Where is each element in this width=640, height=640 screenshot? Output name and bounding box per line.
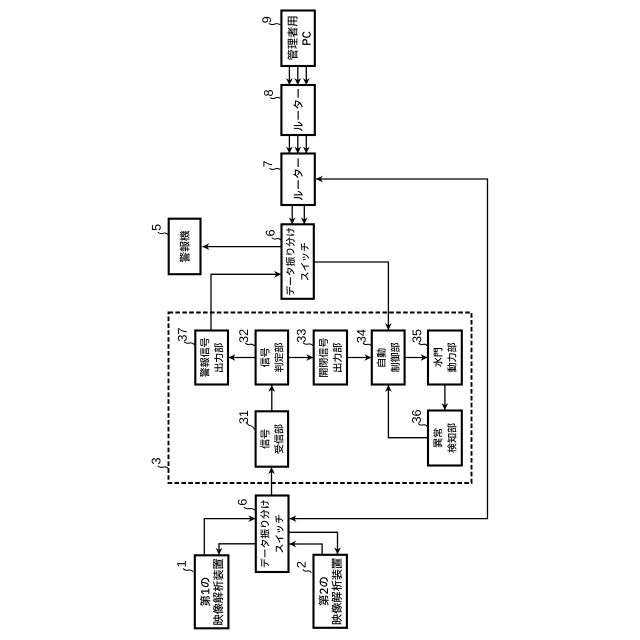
box 35 水門動力部 bbox=[428, 331, 462, 385]
wire 37→6 bbox=[211, 274, 281, 330]
label 2 bbox=[297, 562, 306, 568]
arrow 34→35 bbox=[405, 357, 428, 359]
box 1 第1の映像解析装置 bbox=[195, 555, 229, 628]
arrow 35→36 bbox=[444, 385, 446, 411]
box 34 自動制御部 bbox=[372, 331, 405, 385]
label 33 bbox=[297, 329, 306, 342]
label 8 bbox=[264, 90, 273, 96]
arrow 31→32 bbox=[271, 385, 273, 411]
arrow 8→7 #1 bbox=[288, 135, 290, 154]
arrow 6→5 bbox=[202, 246, 281, 248]
label 7 bbox=[263, 161, 272, 167]
box 6 データ振り分けスイッチ (upper) bbox=[282, 224, 314, 298]
box 6 データ振り分けスイッチ (lower) bbox=[256, 496, 289, 573]
label 37 bbox=[178, 328, 187, 341]
label 32 bbox=[239, 330, 248, 343]
box 33 開閉信号出力部 bbox=[314, 331, 347, 385]
arrow 9→8 #2 bbox=[297, 66, 299, 85]
box 36 異常検知部 bbox=[428, 411, 462, 466]
arrow 9→8 #1 bbox=[288, 66, 290, 85]
arrow 32→33 bbox=[288, 357, 313, 359]
arrow 8→7 #3 bbox=[305, 135, 307, 154]
arrow 7→6 #1 bbox=[291, 205, 293, 224]
box 32 信号判定部 bbox=[256, 331, 289, 385]
box 8 ルーター bbox=[281, 85, 314, 135]
label 9 bbox=[262, 17, 271, 23]
box 31 信号受信部 bbox=[256, 411, 289, 466]
wire 2→6b bbox=[289, 544, 322, 555]
label 6 (lower switch) bbox=[238, 499, 247, 505]
wire 36→34 bbox=[388, 385, 428, 438]
label 34 bbox=[357, 329, 366, 342]
wire 1→6b bbox=[204, 519, 255, 556]
label 35 bbox=[412, 330, 421, 343]
arrow 7→6 #2 bbox=[303, 205, 305, 224]
label 3 bbox=[152, 458, 161, 464]
wire 6b→2 bbox=[288, 532, 337, 554]
box 7 ルーター bbox=[281, 154, 314, 206]
wire 6b→1 bbox=[219, 544, 256, 555]
arrow 33→34 bbox=[347, 357, 371, 359]
label 36 bbox=[412, 410, 421, 423]
label 1 bbox=[177, 561, 186, 566]
arrow 32→37 bbox=[229, 357, 256, 359]
box 5 警報機 bbox=[169, 219, 201, 275]
label 6 (upper switch) bbox=[266, 230, 275, 236]
arrow 9→8 #3 bbox=[305, 66, 307, 85]
box 9 管理者用PC bbox=[281, 11, 314, 67]
box 37 警報信号出力部 bbox=[195, 331, 228, 385]
arrow 6b→31 bbox=[271, 467, 273, 495]
dashed group box 3 自動制御装置 bbox=[169, 313, 472, 484]
wire 7↔6b via right side (bidirectional) bbox=[290, 179, 488, 519]
label 31 bbox=[239, 411, 248, 424]
arrow 8→7 #2 bbox=[297, 135, 299, 154]
label 5 bbox=[152, 224, 161, 230]
wire 6→34 bbox=[314, 262, 389, 330]
box 2 第2の映像解析装置 bbox=[314, 555, 347, 628]
